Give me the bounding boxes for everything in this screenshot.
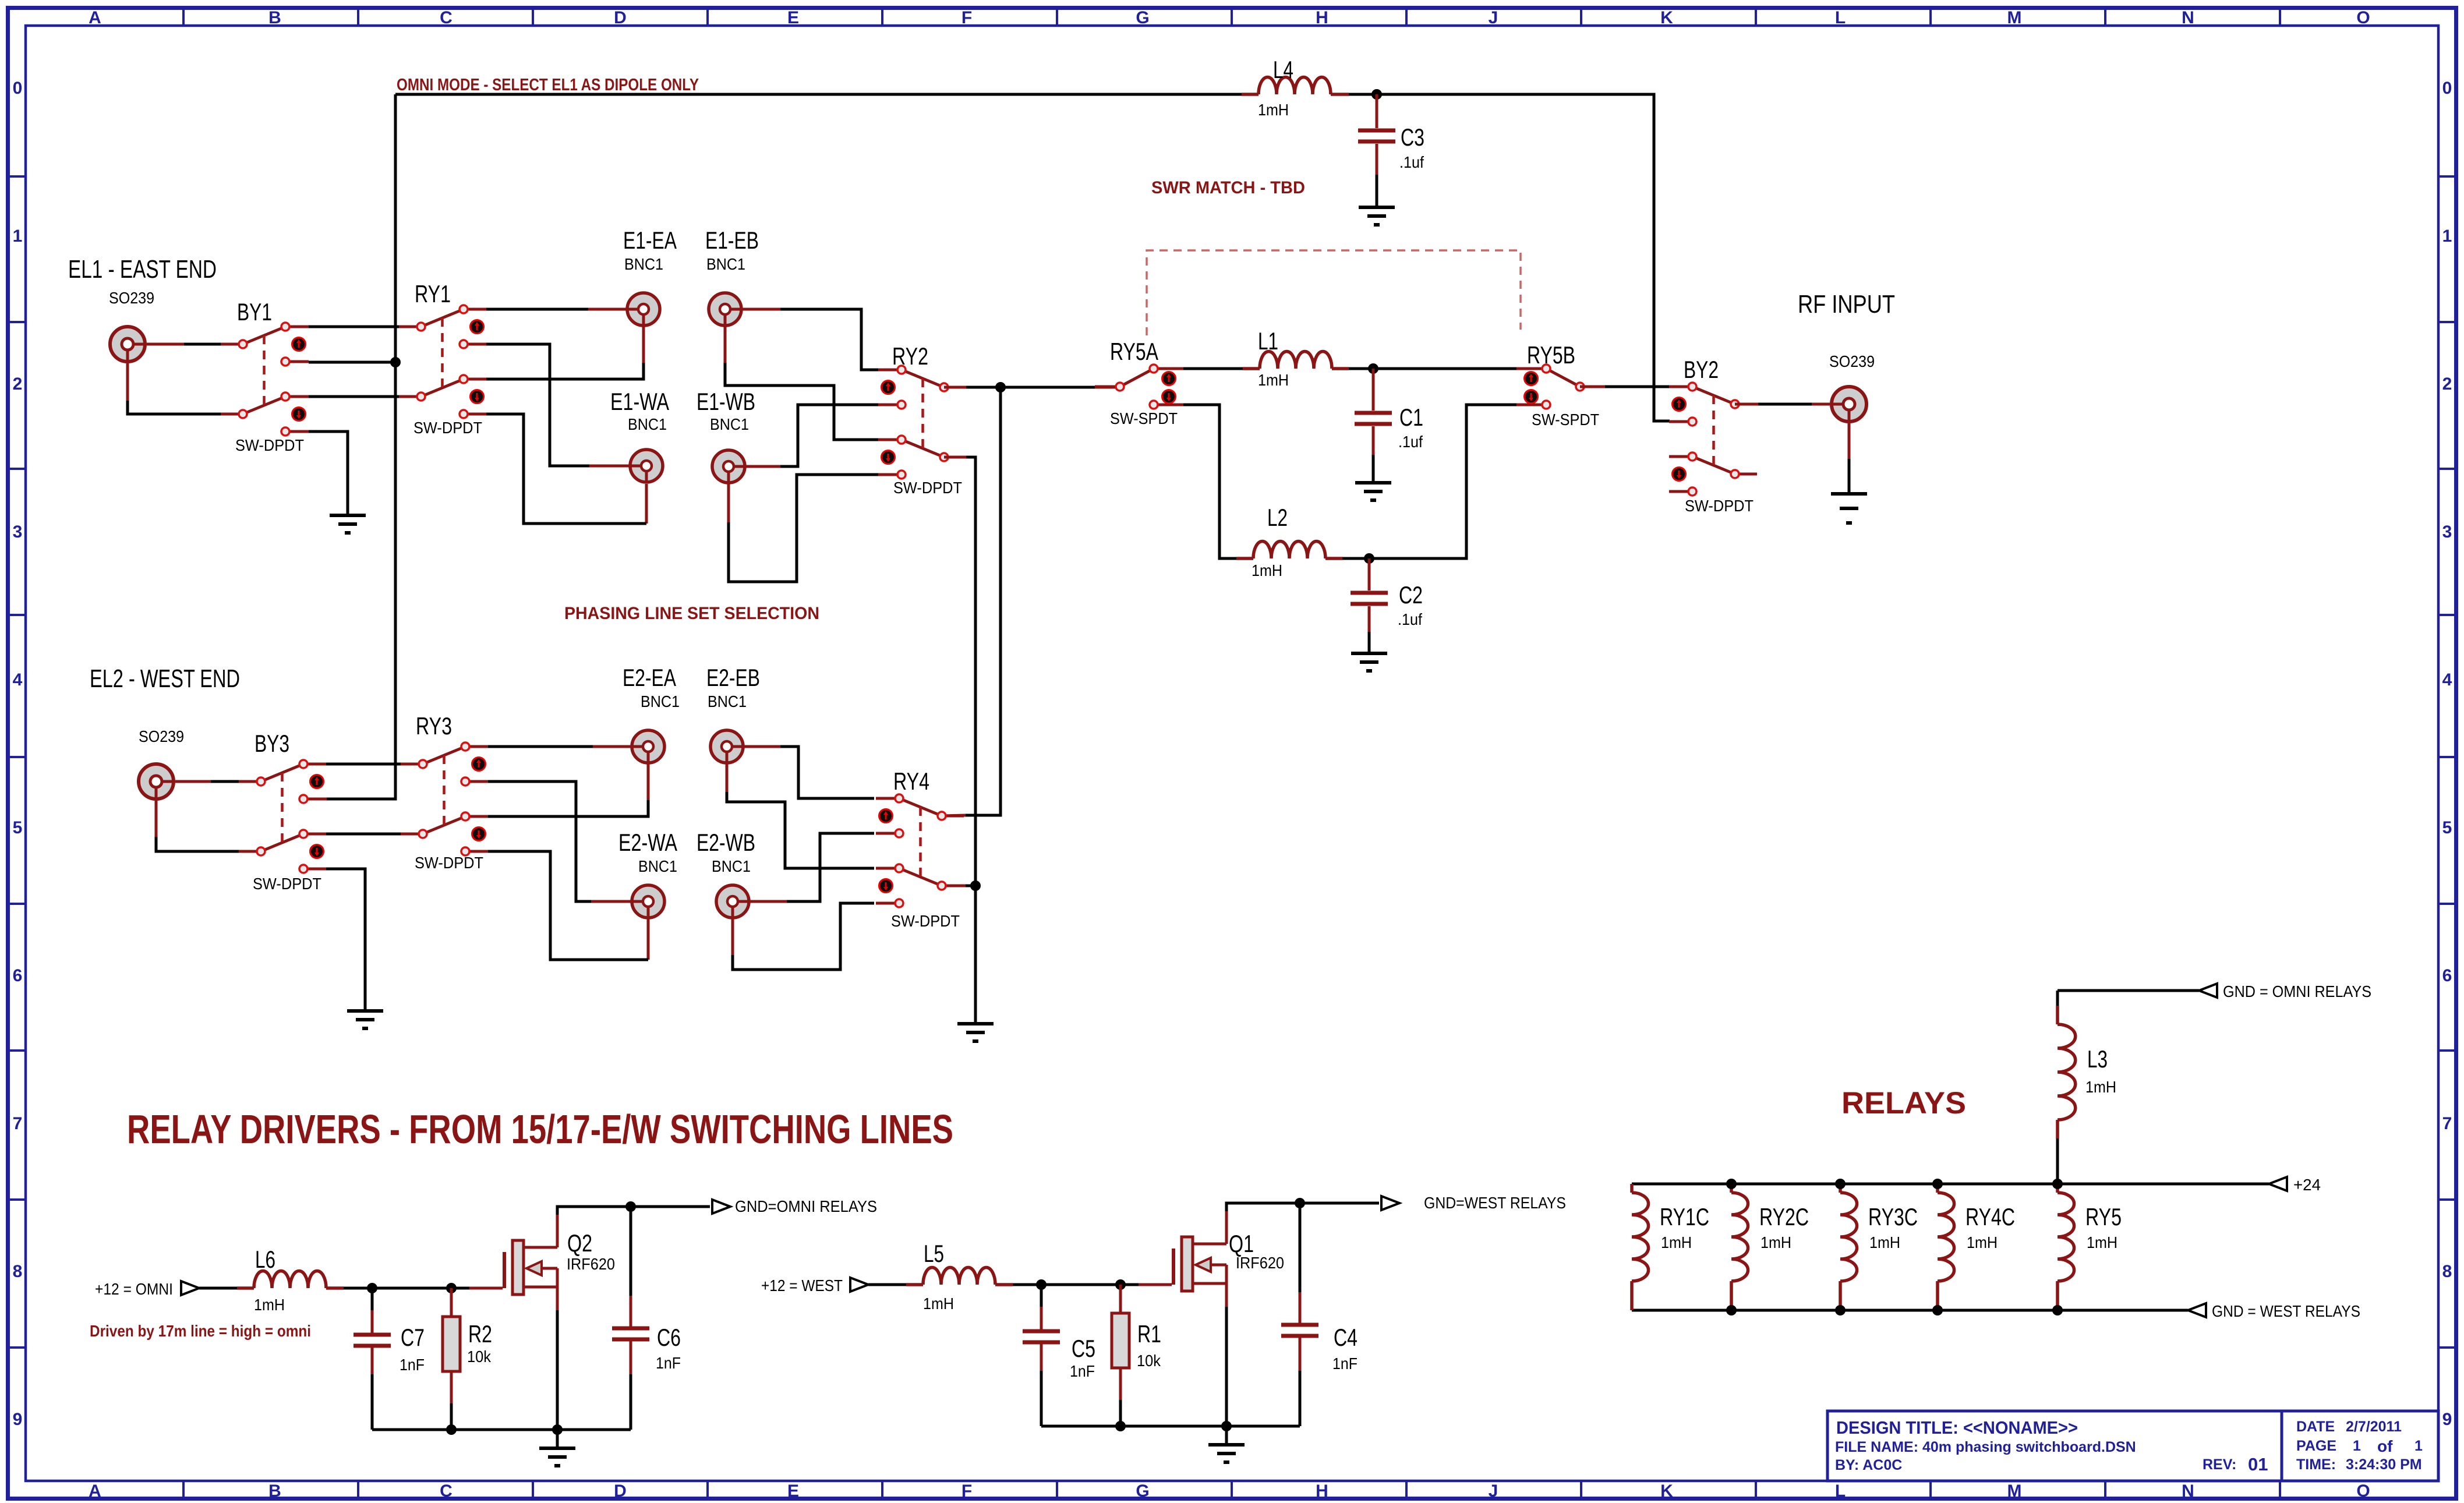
- svg-text:G: G: [1136, 8, 1149, 27]
- switch BY3 SW-DPDT: [239, 760, 327, 873]
- svg-text:1nF: 1nF: [400, 1356, 425, 1374]
- svg-text:REV:: REV:: [2203, 1456, 2236, 1473]
- relay coil RY3C leads: [1839, 1184, 1842, 1310]
- svg-text:RY5: RY5: [2085, 1203, 2122, 1230]
- svg-text:RELAYS: RELAYS: [1841, 1086, 1966, 1120]
- ground below C2: [1351, 653, 1387, 671]
- relay coil RY1C: [1632, 1193, 1649, 1281]
- svg-text:1: 1: [13, 227, 23, 246]
- capacitor C2: [1351, 593, 1388, 604]
- capacitor C3: [1358, 130, 1395, 142]
- svg-text:R2: R2: [468, 1320, 492, 1348]
- capacitor C7: [353, 1335, 391, 1346]
- wire C2 to ground: [1368, 606, 1371, 653]
- wire RY3 t2 to E2-WA left: [488, 781, 591, 901]
- wire L1 to RY5B throw1: [1349, 367, 1522, 370]
- svg-text:O: O: [2356, 8, 2370, 27]
- svg-text:10k: 10k: [1137, 1352, 1161, 1370]
- svg-text:E: E: [787, 1481, 799, 1501]
- connector E2-WB lead right: [750, 900, 787, 903]
- svg-text:DATE: DATE: [2296, 1419, 2335, 1435]
- svg-text:Q2: Q2: [567, 1229, 592, 1257]
- svg-text:C: C: [440, 8, 453, 27]
- svg-text:E2-EA: E2-EA: [623, 664, 676, 691]
- svg-text:C6: C6: [657, 1324, 681, 1351]
- wire RY1 p2t1 to E1-EA bottom: [486, 363, 644, 379]
- svg-text:PAGE: PAGE: [2296, 1438, 2336, 1454]
- svg-text:D: D: [614, 8, 627, 27]
- connector J3 SO239 RF INPUT lead: [1848, 423, 1851, 459]
- wire RY4 common2 to ground bus: [942, 885, 975, 887]
- svg-text:.1uf: .1uf: [1398, 610, 1422, 628]
- svg-text:SW-DPDT: SW-DPDT: [413, 419, 482, 437]
- resistor R1: [1112, 1313, 1129, 1368]
- svg-text:5: 5: [13, 818, 23, 837]
- svg-text:RY2: RY2: [892, 342, 928, 370]
- svg-text:RELAY DRIVERS - FROM 15/17-E/W: RELAY DRIVERS - FROM 15/17-E/W SWITCHING…: [127, 1106, 953, 1152]
- capacitor C6 leads: [630, 1207, 632, 1430]
- svg-text:L: L: [1835, 8, 1846, 27]
- connector E2-WA lead left: [591, 900, 631, 903]
- svg-text:RF INPUT: RF INPUT: [1798, 290, 1895, 319]
- svg-text:FILE NAME: 40m phasing switch: FILE NAME: 40m phasing switchboard.DSN: [1835, 1439, 2136, 1455]
- wire L3 top to GND=OMNI flag: [2058, 989, 2199, 992]
- svg-text:8: 8: [13, 1262, 23, 1281]
- wire SO239 EL2 to BY3 pole2 common: [156, 837, 239, 851]
- svg-text:SWR MATCH - TBD: SWR MATCH - TBD: [1151, 178, 1305, 197]
- relay contacts RY5A SW-SPDT: [1095, 365, 1183, 409]
- wire RY1 p2t2 to E1-WA bottom: [486, 414, 646, 524]
- svg-text:+24: +24: [2293, 1176, 2321, 1194]
- svg-text:Q1: Q1: [1229, 1230, 1254, 1257]
- junction node at L4/C3: [1371, 89, 1382, 100]
- svg-text:BNC1: BNC1: [706, 255, 745, 273]
- svg-text:F: F: [961, 1481, 972, 1501]
- connector E1-EB lead right: [743, 308, 780, 311]
- junction dot R1 bottom: [1115, 1421, 1126, 1431]
- svg-text:L1: L1: [1258, 327, 1278, 355]
- inductor L5: [906, 1268, 1013, 1285]
- relay contacts RY1 SW-DPDT: [399, 305, 487, 418]
- wire RY5B common to BY2 throw1: [1580, 386, 1670, 388]
- wire RY3 t1 to E2-EA: [488, 745, 593, 748]
- ground below RY4: [957, 1024, 994, 1041]
- svg-text:1mH: 1mH: [1258, 371, 1289, 389]
- svg-text:1: 1: [2414, 1438, 2423, 1454]
- connector E1-WA lead bottom: [645, 484, 648, 524]
- svg-text:BY3: BY3: [254, 730, 289, 757]
- relay contacts RY2 SW-DPDT: [878, 366, 966, 479]
- svg-text:0: 0: [2442, 79, 2452, 98]
- svg-text:E1-EA: E1-EA: [623, 227, 677, 254]
- wire source of Q1 to ground rail: [1225, 1307, 1228, 1426]
- svg-text:1nF: 1nF: [1070, 1362, 1095, 1380]
- wire E2-WB bottom to RY4 pole2 throw2: [733, 903, 874, 970]
- signal output flag GND rail of Q1: [1381, 1196, 1399, 1210]
- resistor R2 leads: [450, 1288, 453, 1430]
- mechanical link dashed RY5A-RY5B: [1147, 250, 1521, 335]
- connector J1 SO239 EL1 leads: [128, 344, 184, 401]
- svg-text:10k: 10k: [467, 1348, 492, 1366]
- junction dot R1 tap: [1115, 1279, 1126, 1290]
- relay coil RY4C leads: [1936, 1184, 1939, 1310]
- svg-text:E1-EB: E1-EB: [705, 227, 759, 254]
- wire BY1 t1 to RY1 common1: [309, 326, 399, 328]
- wire RY1 t1 to E1-EA: [486, 308, 588, 311]
- svg-text:BY: AC0C: BY: AC0C: [1835, 1457, 1902, 1473]
- junction dot OMNI vertical at BY1: [390, 357, 401, 367]
- capacitor C4 leads: [1299, 1203, 1302, 1426]
- wire E1-WB right to RY2 throw2: [780, 405, 879, 466]
- wire E1-WB bottom to RY2 pole2 throw2: [729, 475, 879, 582]
- junction dot RY2C top: [1726, 1179, 1737, 1189]
- transistor Q1 IRF620: [1173, 1209, 1226, 1307]
- wire BY3 pole2 t1 to RY3 common2: [326, 833, 401, 836]
- wire RF INPUT to ground: [1848, 459, 1851, 494]
- svg-text:4: 4: [13, 670, 23, 689]
- connector E2-WB BNC1: [716, 885, 749, 918]
- wire RY3 p2t2 to E2-WA bottom: [488, 851, 648, 960]
- ground below Q1: [1208, 1445, 1245, 1462]
- wire RY2 common2 to ground bus: [944, 457, 975, 1024]
- svg-text:K: K: [1660, 1481, 1673, 1501]
- signal output flag GND rail of Q2: [712, 1200, 730, 1214]
- inductor L2: [1236, 542, 1342, 558]
- wire bottom rail C5-R1-Q1-C4: [1041, 1425, 1300, 1428]
- capacitor C7 leads: [371, 1288, 374, 1430]
- svg-text:0: 0: [13, 79, 23, 98]
- wire BY1 t2 to OMNI vertical junction: [309, 361, 395, 364]
- wire RY3 p2t1 to E2-EA bottom: [488, 800, 648, 816]
- svg-text:1mH: 1mH: [1258, 101, 1289, 119]
- ground below C3: [1359, 207, 1395, 225]
- svg-text:M: M: [2007, 8, 2022, 27]
- relay coil RY3C: [1840, 1193, 1857, 1281]
- svg-text:BNC1: BNC1: [641, 692, 680, 710]
- svg-text:1mH: 1mH: [1760, 1233, 1791, 1251]
- svg-text:6: 6: [13, 966, 23, 985]
- svg-text:RY5A: RY5A: [1110, 338, 1158, 365]
- svg-text:L6: L6: [255, 1246, 275, 1273]
- svg-text:RY4C: RY4C: [1965, 1203, 2015, 1230]
- relay coil RY2C leads: [1730, 1184, 1733, 1310]
- wire BY2 common1 to RF INPUT SO239: [1735, 403, 1830, 406]
- svg-text:SO239: SO239: [1829, 352, 1875, 370]
- inductor L1: [1243, 352, 1349, 369]
- wire E1-EB right to RY2 throw1: [780, 309, 879, 370]
- connector E1-EA lead bottom: [642, 327, 645, 363]
- inductor L6: [237, 1271, 344, 1288]
- svg-text:1mH: 1mH: [2087, 1233, 2117, 1251]
- connector J2 SO239 EL2 leads: [156, 781, 211, 837]
- svg-text:SO239: SO239: [109, 289, 154, 307]
- svg-text:.1uf: .1uf: [1398, 433, 1423, 451]
- svg-text:2/7/2011: 2/7/2011: [2346, 1419, 2402, 1435]
- wire BY1 pole2 t2 to ground: [309, 432, 348, 515]
- svg-text:K: K: [1660, 8, 1673, 27]
- wire SO239 to BY1 pole1 common: [184, 343, 221, 346]
- junction dot Q1 source bottom: [1221, 1421, 1232, 1431]
- relay coil RY2C: [1731, 1193, 1748, 1281]
- junction dot ground bus at RY4: [970, 880, 981, 891]
- svg-text:1mH: 1mH: [254, 1296, 285, 1314]
- net GND WEST rail: [1632, 1309, 2188, 1312]
- svg-text:BNC1: BNC1: [638, 857, 677, 875]
- wire BY3 pole2 t2 to ground: [326, 869, 365, 1011]
- wire E2-WB right to RY4 throw2: [787, 833, 874, 901]
- svg-text:RY1C: RY1C: [1660, 1203, 1709, 1230]
- inductor L4: [1242, 77, 1349, 94]
- relay coil RY1C leads: [1630, 1184, 1634, 1310]
- junction dot C4 on drain rail: [1295, 1198, 1305, 1208]
- svg-text:R1: R1: [1137, 1320, 1161, 1348]
- svg-text:SW-DPDT: SW-DPDT: [253, 875, 321, 893]
- svg-text:M: M: [2007, 1481, 2022, 1501]
- connector E2-WA BNC1: [632, 885, 664, 918]
- transistor Q2 IRF620: [504, 1212, 557, 1310]
- svg-text:H: H: [1316, 1481, 1328, 1501]
- wire +12 input to L6: [199, 1287, 237, 1290]
- junction node RF mid: [995, 382, 1006, 392]
- svg-text:3:24:30 PM: 3:24:30 PM: [2346, 1456, 2422, 1473]
- connector E2-WB lead bottom: [731, 919, 734, 955]
- svg-text:C: C: [440, 1481, 453, 1501]
- switch BY2 SW-DPDT: [1669, 383, 1757, 496]
- junction dot RY2C bottom: [1726, 1305, 1737, 1315]
- svg-text:SW-DPDT: SW-DPDT: [891, 912, 960, 930]
- junction dot R2 tap: [446, 1283, 457, 1293]
- connector E1-EA BNC1: [627, 293, 660, 326]
- svg-text:SW-DPDT: SW-DPDT: [893, 479, 962, 497]
- net +24 rail: [1632, 1183, 2269, 1186]
- svg-text:3: 3: [13, 522, 23, 542]
- wire bottom rail C7-R2-Q2-C6: [372, 1428, 631, 1431]
- svg-text:L3: L3: [2087, 1045, 2108, 1073]
- junction dot RY4C bottom: [1932, 1305, 1943, 1315]
- resistor R1 leads: [1119, 1285, 1122, 1426]
- connector E2-EB lead bottom: [726, 764, 729, 792]
- signal input flag (+12) for Q1 driver: [850, 1278, 868, 1292]
- wire E2-EB right to RY4 throw1: [780, 747, 874, 798]
- connector E2-EA lead left: [593, 745, 631, 748]
- wire RY2 common1 to RY5A common: [944, 386, 1120, 389]
- inductor L3 leads: [2056, 991, 2059, 1184]
- junction dot RY3C top: [1835, 1179, 1846, 1189]
- relay coil RY5: [2058, 1193, 2074, 1281]
- svg-text:L: L: [1835, 1481, 1846, 1501]
- svg-text:PHASING LINE SET SELECTION: PHASING LINE SET SELECTION: [564, 604, 819, 623]
- svg-text:Driven by 17m line = high = om: Driven by 17m line = high = omni: [90, 1322, 311, 1340]
- capacitor C3 lead: [1376, 94, 1378, 128]
- junction dot R2 bottom: [446, 1424, 457, 1435]
- svg-text:7: 7: [13, 1114, 23, 1133]
- svg-text:BNC1: BNC1: [624, 255, 663, 273]
- svg-text:B: B: [268, 1481, 281, 1501]
- capacitor C1: [1355, 413, 1392, 424]
- svg-text:TIME:: TIME:: [2296, 1456, 2336, 1473]
- capacitor C1 lead: [1372, 369, 1375, 411]
- signal flag GND = WEST RELAYS: [2188, 1303, 2206, 1317]
- wire drain of Q1 to GND flag rail: [1226, 1203, 1379, 1211]
- wire RY5A throw2 to L2: [1183, 405, 1236, 558]
- svg-text:OMNI MODE - SELECT EL1 AS DIPO: OMNI MODE - SELECT EL1 AS DIPOLE ONLY: [397, 76, 699, 94]
- svg-text:7: 7: [2442, 1114, 2452, 1133]
- svg-text:E1-WA: E1-WA: [610, 388, 669, 415]
- svg-text:3: 3: [2442, 522, 2452, 542]
- junction dot Q2 source bottom: [552, 1424, 563, 1435]
- svg-text:SO239: SO239: [139, 727, 184, 745]
- svg-text:E2-WB: E2-WB: [697, 829, 755, 856]
- svg-text:IRF620: IRF620: [1236, 1254, 1284, 1272]
- svg-text:N: N: [2182, 1481, 2194, 1501]
- svg-text:.1uf: .1uf: [1399, 153, 1424, 171]
- wire BY3 t1 to RY3 common1: [326, 763, 401, 766]
- svg-text:E2-EB: E2-EB: [706, 664, 760, 691]
- wire C1 to ground: [1372, 426, 1375, 483]
- svg-text:1mH: 1mH: [2085, 1078, 2116, 1096]
- svg-text:GND = WEST RELAYS: GND = WEST RELAYS: [2212, 1302, 2360, 1320]
- wire RY5A throw1 to L1: [1183, 367, 1243, 370]
- capacitor C2 lead: [1368, 558, 1371, 590]
- svg-text:C5: C5: [1072, 1335, 1095, 1362]
- svg-text:+12 = WEST: +12 = WEST: [761, 1276, 843, 1295]
- svg-text:L2: L2: [1267, 504, 1288, 531]
- junction dot RY5 top: [2052, 1179, 2063, 1189]
- svg-text:B: B: [268, 8, 281, 27]
- wire SO239 to BY1 pole2 common: [128, 401, 221, 414]
- svg-text:BNC1: BNC1: [712, 857, 751, 875]
- wire L2 to RY5B throw2: [1342, 405, 1516, 558]
- connector E2-WA lead bottom: [647, 919, 650, 960]
- connector E1-EB BNC1: [709, 293, 741, 326]
- capacitor C4: [1281, 1325, 1318, 1336]
- switch BY1 SW-DPDT: [221, 323, 309, 436]
- svg-text:D: D: [614, 1481, 627, 1501]
- svg-text:4: 4: [2442, 670, 2452, 689]
- wire L4 to right corner down to BY2: [1349, 94, 1670, 421]
- svg-text:SW-SPDT: SW-SPDT: [1110, 409, 1178, 427]
- svg-text:C4: C4: [1334, 1324, 1358, 1351]
- connector E1-EB lead bottom: [724, 327, 727, 363]
- svg-text:5: 5: [2442, 818, 2452, 837]
- connector E1-WB lead right: [746, 465, 780, 468]
- svg-text:H: H: [1316, 8, 1328, 27]
- svg-text:2: 2: [2442, 374, 2452, 394]
- wire BY1 pole2 t1 to RY1 common2: [309, 395, 399, 398]
- capacitor C5: [1023, 1331, 1060, 1342]
- ground below BY1: [330, 515, 366, 533]
- svg-text:C7: C7: [401, 1324, 425, 1351]
- svg-text:BNC1: BNC1: [628, 415, 667, 433]
- wire SO239 EL2 to BY3 pole1 common: [211, 780, 239, 783]
- svg-text:BY2: BY2: [1684, 356, 1719, 383]
- junction dot C5 tap: [1036, 1279, 1047, 1290]
- signal input flag (+12) for Q2 driver: [181, 1281, 199, 1295]
- junction dot C7 tap: [367, 1283, 377, 1293]
- title block (decorative): [1827, 1411, 2438, 1481]
- svg-text:E2-WA: E2-WA: [618, 829, 677, 856]
- svg-text:6: 6: [2442, 966, 2452, 985]
- wire L6 to gate of Q2: [344, 1287, 503, 1290]
- connector E1-EA lead left: [588, 308, 626, 311]
- wire drain of Q2 to GND flag rail: [557, 1207, 710, 1215]
- svg-text:RY2C: RY2C: [1759, 1203, 1809, 1230]
- svg-text:E1-WB: E1-WB: [697, 388, 755, 415]
- connector E2-EA BNC1: [632, 730, 664, 763]
- relay contacts RY3 SW-DPDT: [401, 742, 489, 855]
- svg-text:C3: C3: [1401, 123, 1424, 151]
- relay contacts RY5B SW-SPDT: [1516, 365, 1605, 409]
- connector J1 SO239 EL1: [110, 327, 145, 362]
- svg-text:GND = OMNI RELAYS: GND = OMNI RELAYS: [2223, 982, 2371, 1000]
- svg-text:1mH: 1mH: [1869, 1233, 1900, 1251]
- svg-text:F: F: [961, 8, 972, 27]
- wire E2-EB bottom to RY4 pole2 throw1: [727, 792, 874, 868]
- svg-text:J: J: [1489, 1481, 1498, 1501]
- svg-text:1nF: 1nF: [1332, 1355, 1358, 1373]
- svg-text:RY4: RY4: [893, 768, 929, 795]
- junction node L1/C1: [1368, 363, 1378, 374]
- wire +12 input to L5: [868, 1283, 906, 1286]
- ground below BY3: [347, 1011, 383, 1028]
- junction dot RY5 bottom: [2052, 1305, 2063, 1315]
- svg-text:1: 1: [2442, 227, 2452, 246]
- svg-text:O: O: [2356, 1481, 2370, 1501]
- svg-text:1nF: 1nF: [656, 1354, 681, 1372]
- svg-text:EL1 - EAST END: EL1 - EAST END: [68, 255, 217, 284]
- svg-text:L4: L4: [1273, 56, 1293, 83]
- svg-text:BNC1: BNC1: [708, 692, 747, 710]
- svg-text:A: A: [89, 1481, 101, 1501]
- svg-text:SW-SPDT: SW-SPDT: [1532, 411, 1599, 429]
- svg-text:C2: C2: [1399, 581, 1423, 609]
- svg-text:GND=WEST RELAYS: GND=WEST RELAYS: [1424, 1194, 1566, 1212]
- connector E1-WB lead bottom: [727, 484, 730, 522]
- junction dot RY4C top: [1932, 1179, 1943, 1189]
- svg-text:EL2 - WEST END: EL2 - WEST END: [90, 664, 240, 693]
- svg-text:+12 = OMNI: +12 = OMNI: [95, 1280, 173, 1298]
- svg-text:9: 9: [13, 1410, 23, 1429]
- svg-text:RY3: RY3: [416, 712, 452, 740]
- svg-text:GND=OMNI RELAYS: GND=OMNI RELAYS: [735, 1197, 877, 1215]
- junction dot RY3C bottom: [1835, 1305, 1846, 1315]
- svg-text:SW-DPDT: SW-DPDT: [1685, 497, 1754, 515]
- ground below RF INPUT: [1831, 494, 1867, 523]
- svg-text:1: 1: [2353, 1438, 2361, 1454]
- svg-text:BY1: BY1: [237, 298, 272, 326]
- net OMNI - top bus wire from vertical to L4: [395, 93, 1242, 96]
- svg-text:RY5B: RY5B: [1527, 341, 1575, 369]
- net RF mid - vertical down to RY4 common1: [942, 387, 1001, 816]
- svg-text:2: 2: [13, 374, 23, 394]
- connector E1-WA BNC1: [630, 450, 663, 482]
- svg-text:L5: L5: [924, 1240, 944, 1267]
- junction node L2/C2: [1364, 553, 1374, 564]
- svg-text:1mH: 1mH: [923, 1295, 954, 1313]
- svg-text:A: A: [89, 8, 101, 27]
- wire RY1 t2 to E1-WA left: [486, 344, 589, 466]
- svg-text:RY1: RY1: [415, 280, 451, 307]
- junction dot C6 on drain rail: [625, 1201, 636, 1212]
- signal flag +24: [2269, 1177, 2287, 1191]
- svg-text:C1: C1: [1399, 404, 1423, 431]
- svg-text:DESIGN TITLE: <<NONAME>>: DESIGN TITLE: <<NONAME>>: [1836, 1417, 2078, 1438]
- wire L5 to gate of Q1: [1013, 1283, 1172, 1286]
- svg-text:G: G: [1136, 1481, 1149, 1501]
- svg-text:E: E: [787, 8, 799, 27]
- connector E2-EA lead bottom: [647, 764, 650, 800]
- svg-text:N: N: [2182, 8, 2194, 27]
